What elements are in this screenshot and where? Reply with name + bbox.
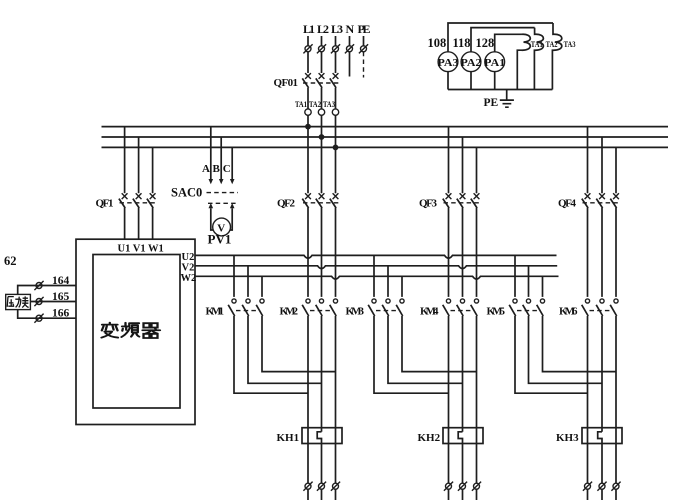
wire QF4 pole2 to KM6 (601, 208, 603, 297)
svg-text:QF2: QF2 (277, 198, 296, 210)
motor2 terminal 3 (472, 482, 481, 491)
svg-text:PE: PE (358, 22, 371, 36)
wire QF4 pole3 to KM6 (615, 208, 617, 297)
wire bus L1 to QF1 pole1 (124, 127, 126, 194)
wire bus L2 to QF1 pole2 (138, 137, 140, 193)
junction L1 (305, 124, 311, 130)
wire W2 to KM1 pole3 (261, 276, 263, 297)
svg-text:V2: V2 (182, 262, 195, 273)
wire bus to QF4 poles (588, 127, 617, 194)
svg-text:QF4: QF4 (558, 198, 577, 210)
thermal relay KH2 (418, 428, 484, 444)
thermal relay KH1 (277, 428, 343, 444)
wire PE stub (dashed) (363, 52, 365, 78)
motor3 terminal 3 (611, 482, 620, 491)
svg-text:TA1: TA1 (295, 99, 307, 109)
contactor KM2 (280, 299, 338, 318)
wire V2 to KM1 pole2 (247, 266, 249, 297)
ammeter PA3 (438, 52, 459, 72)
wire KM5 pole3 to motor3 phase3 (543, 316, 617, 372)
wire KM1 pole2 to motor1 phase2 (248, 316, 322, 383)
terminal L2 (321, 36, 323, 46)
wire 164 (18, 275, 76, 295)
wire KH1 to motor1 terminals (308, 444, 336, 484)
svg-text:B: B (213, 163, 221, 175)
svg-text:164: 164 (52, 275, 70, 287)
motor1 terminal 3 (331, 482, 340, 491)
svg-text:TA3: TA3 (323, 99, 335, 109)
contactor KM1 (206, 299, 265, 318)
svg-text:SAC0: SAC0 (171, 186, 202, 200)
breaker QF4 (558, 193, 620, 209)
svg-text:A: A (202, 163, 210, 175)
wire U2 to KM5 pole1 (514, 255, 516, 297)
wire KH3 to motor3 terminals (588, 444, 617, 484)
wire L1 to QF01 (307, 52, 309, 73)
wire bus L3 to QF1 pole3 (152, 147, 154, 193)
bus V2 (with hops) (195, 266, 557, 269)
wire QF2 pole2 to KM2 (321, 208, 323, 297)
svg-text:128: 128 (476, 36, 495, 50)
wire U2 to KM1 pole1 (233, 255, 235, 297)
arrow B down (219, 179, 224, 184)
voltmeter PV1 (208, 218, 232, 246)
svg-text:PA3: PA3 (438, 58, 459, 69)
contactor KM3 (346, 299, 405, 318)
wire KM3 pole2 to motor2 phase2 (388, 316, 463, 383)
wire PA3 loop top (448, 23, 553, 52)
bus W2 (with hops) (195, 276, 559, 279)
wire tap C from bus L3 (231, 147, 233, 179)
wire PA2 loop top (471, 28, 535, 52)
arrow A down (209, 179, 214, 184)
svg-text:TA2: TA2 (309, 99, 321, 109)
thermal relay KH3 (556, 428, 622, 444)
terminal PE (363, 36, 365, 46)
wire KM5 pole2 to motor3 phase2 (529, 316, 603, 383)
svg-text:KM6: KM6 (559, 306, 578, 318)
wire QF2 pole1 to KM2 (307, 208, 309, 297)
wire N stub (349, 52, 351, 77)
wire V2 to KM5 pole2 (528, 266, 530, 297)
wire TA2 to bus L2 (321, 115, 323, 137)
CT secondary winding TA1 (517, 34, 543, 89)
svg-text:L3: L3 (331, 22, 343, 36)
ammeter PA1 (484, 52, 505, 72)
svg-text:TA3: TA3 (564, 39, 576, 49)
wire motor2 tails (449, 489, 477, 500)
wire KM3 pole3 to motor2 phase3 (402, 316, 477, 372)
wire KM1 pole1 to motor1 phase1 (234, 316, 308, 393)
wire L3 to QF01 (335, 52, 337, 73)
motor3 terminal 1 (583, 482, 592, 491)
wire KM5 pole1 to motor3 phase1 (515, 316, 588, 393)
breaker QF1 (96, 193, 157, 209)
inverter 变频器 label (drawn strokes) (102, 323, 161, 338)
svg-text:KH2: KH2 (418, 432, 441, 444)
wire U2 to KM3 pole1 (373, 255, 375, 297)
wire tap A from bus L1 (210, 127, 212, 180)
breaker QF3 (419, 193, 480, 209)
bus L3 (102, 146, 669, 148)
wire bus to QF3 poles (449, 127, 477, 194)
wire bus to QF2 poles (308, 127, 336, 194)
svg-text:TA2: TA2 (546, 39, 558, 49)
terminal L3 (335, 36, 337, 46)
svg-text:KH3: KH3 (556, 432, 579, 444)
motor2 terminal 1 (444, 482, 453, 491)
contactor KM5 (487, 299, 545, 318)
wire motor1 tails (308, 489, 336, 500)
svg-text:165: 165 (52, 291, 70, 303)
wire motor3 tails (588, 489, 617, 500)
motor2 terminal 2 (458, 482, 467, 491)
inverter outer box (76, 239, 195, 424)
svg-text:62: 62 (4, 254, 17, 268)
inverter inner box (93, 255, 180, 409)
CT secondary winding TA2 (534, 28, 557, 90)
arrow C down (230, 179, 235, 184)
svg-text:KM3: KM3 (346, 306, 365, 318)
current transformer TA2 (309, 99, 325, 115)
wire W2 to KM3 pole3 (401, 276, 403, 297)
wire V2 to KM3 pole2 (387, 266, 389, 297)
motor1 terminal 2 (317, 482, 326, 491)
svg-text:L1: L1 (303, 22, 315, 36)
CT secondary winding TA3 (552, 23, 575, 90)
svg-text:QF01: QF01 (274, 77, 299, 89)
svg-text:PV1: PV1 (208, 232, 232, 247)
wire 165 (30, 291, 76, 306)
wire PA1 loop top (495, 34, 522, 52)
wire QF1 pole3 to inverter W1 (152, 208, 154, 239)
motor1 terminal 1 (303, 482, 312, 491)
wire PA1 bottom (494, 72, 496, 90)
wire QF01 pole3 to CT TA3 (335, 88, 337, 109)
wire KH2 to motor2 terminals (449, 444, 477, 484)
motor3 terminal 2 (597, 482, 606, 491)
svg-text:KM1: KM1 (206, 306, 225, 318)
wire QF3 pole2 to KM4 (462, 208, 464, 297)
current transformer TA1 (295, 99, 311, 115)
svg-text:L2: L2 (317, 22, 329, 36)
arrow up left (209, 203, 214, 208)
wire TA3 to bus L3 (335, 115, 337, 147)
breaker QF2 (277, 193, 339, 209)
wire QF01 pole1 to CT TA1 (307, 88, 309, 109)
wire KM3 pole1 to motor2 phase1 (374, 316, 449, 393)
svg-text:KM4: KM4 (420, 306, 439, 318)
wire QF2 pole3 to KM2 (335, 208, 337, 297)
svg-text:W2: W2 (181, 273, 197, 284)
wire PA3 bottom (447, 72, 449, 90)
svg-text:KH1: KH1 (277, 432, 300, 444)
svg-text:QF1: QF1 (96, 198, 114, 210)
wire QF4 pole1 to KM6 (587, 208, 589, 297)
svg-text:166: 166 (52, 307, 70, 319)
svg-text:KM5: KM5 (487, 306, 506, 318)
meter selector SACO (171, 186, 238, 204)
wire QF1 pole1 to inverter U1 (124, 208, 126, 239)
bus U2 (with hops) (195, 255, 557, 258)
wire KM1 pole3 to motor1 phase3 (262, 316, 336, 372)
wire QF3 pole1 to KM4 (448, 208, 450, 297)
current transformer TA3 (323, 99, 339, 115)
svg-text:N: N (346, 22, 355, 36)
svg-text:108: 108 (428, 36, 447, 50)
wire QF3 pole3 to KM4 (476, 208, 478, 297)
contactor KM4 (420, 299, 479, 318)
wire W2 to KM5 pole3 (542, 276, 544, 297)
junction L3 (333, 145, 339, 151)
ground PE of ammeter panel (484, 90, 514, 110)
wire to voltmeter right (230, 208, 232, 230)
svg-text:PA1: PA1 (484, 58, 505, 69)
wire L2 to QF01 (321, 52, 323, 73)
svg-text:PA2: PA2 (461, 58, 482, 69)
wire tap B from bus L2 (220, 137, 222, 180)
wire 166 (18, 307, 76, 323)
wire to voltmeter left (211, 208, 214, 230)
terminal N (349, 36, 351, 46)
wire QF1 pole2 to inverter V1 (138, 208, 140, 239)
svg-text:C: C (223, 163, 231, 175)
wire KM6 outputs to KH3 (588, 316, 617, 432)
ammeter PA2 (461, 52, 482, 72)
svg-text:PE: PE (484, 97, 499, 109)
terminal L1 (307, 36, 309, 46)
contactor KM6 (559, 299, 618, 318)
breaker QF01 (274, 73, 340, 89)
bus L2 (102, 136, 669, 138)
svg-text:QF3: QF3 (419, 198, 438, 210)
wire KM2 outputs to KH1 (308, 316, 336, 432)
svg-text:KM2: KM2 (280, 306, 299, 318)
bus L1 (102, 126, 669, 128)
wire QF01 pole2 to CT TA2 (321, 88, 323, 109)
wire PA2 bottom (470, 72, 472, 90)
pressure gauge box (6, 294, 31, 309)
wire TA1 to bus L1 (307, 115, 309, 126)
svg-text:118: 118 (453, 36, 471, 50)
wire ammeter common bottom (448, 89, 552, 91)
junction L2 (319, 134, 325, 140)
wire KM4 outputs to KH2 (449, 316, 477, 432)
arrow up right (230, 203, 235, 208)
svg-text:U1 V1 W1: U1 V1 W1 (118, 244, 164, 255)
